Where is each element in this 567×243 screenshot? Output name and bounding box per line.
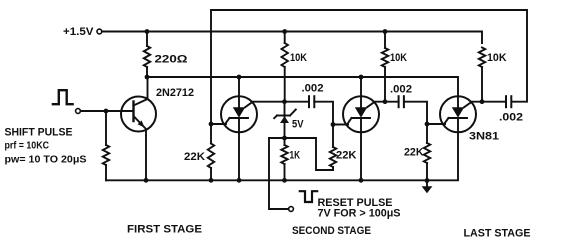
svg-text:22K: 22K bbox=[404, 147, 424, 159]
svg-text:2N2712: 2N2712 bbox=[156, 87, 194, 99]
svg-text:5V: 5V bbox=[292, 119, 304, 131]
svg-text:pw= 10 TO 20μS: pw= 10 TO 20μS bbox=[5, 155, 87, 166]
svg-text:.002: .002 bbox=[302, 83, 324, 95]
svg-text:1K: 1K bbox=[290, 150, 301, 162]
svg-text:+1.5V: +1.5V bbox=[63, 26, 94, 38]
svg-text:FIRST STAGE: FIRST STAGE bbox=[127, 224, 202, 236]
svg-text:220Ω: 220Ω bbox=[155, 54, 188, 66]
svg-text:prf = 10KC: prf = 10KC bbox=[5, 141, 50, 152]
svg-text:SECOND STAGE: SECOND STAGE bbox=[292, 225, 371, 237]
svg-text:10K: 10K bbox=[487, 52, 507, 64]
svg-text:22K: 22K bbox=[336, 150, 357, 162]
svg-text:10K: 10K bbox=[390, 52, 407, 64]
svg-text:3N81: 3N81 bbox=[469, 131, 499, 143]
svg-text:LAST STAGE: LAST STAGE bbox=[464, 228, 531, 240]
svg-text:SHIFT PULSE: SHIFT PULSE bbox=[5, 127, 73, 139]
svg-text:22K: 22K bbox=[184, 151, 205, 163]
svg-text:.002: .002 bbox=[499, 112, 523, 124]
svg-text:7V FOR > 100μS: 7V FOR > 100μS bbox=[318, 208, 401, 220]
svg-text:10K: 10K bbox=[290, 52, 307, 64]
svg-text:.002: .002 bbox=[390, 84, 412, 96]
